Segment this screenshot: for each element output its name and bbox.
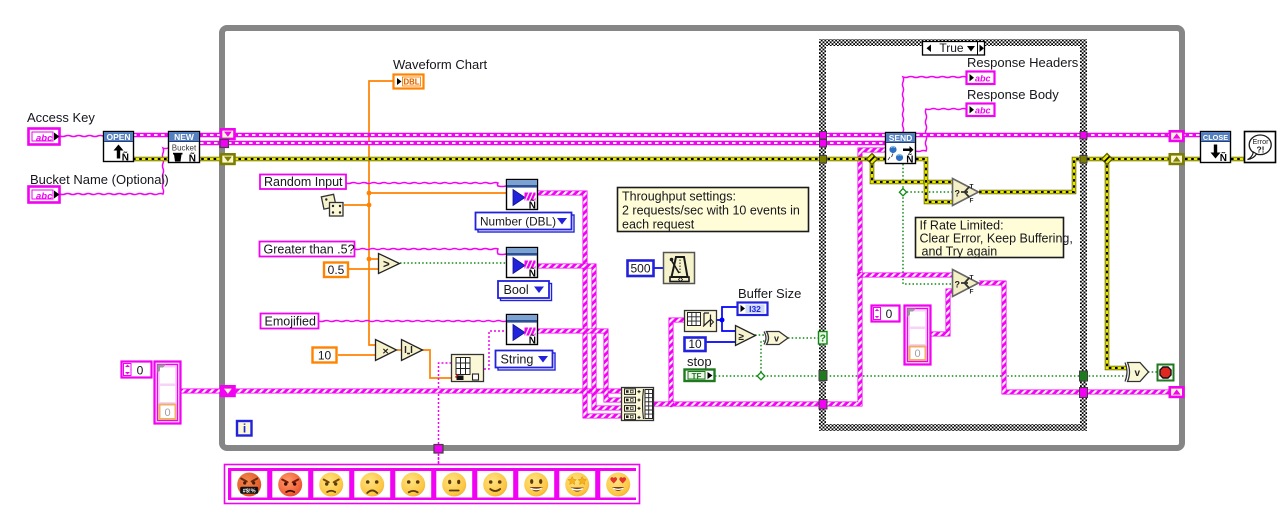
junction: green diamond on stop wire	[757, 372, 765, 380]
tunnel: case right pink square wire1	[1080, 132, 1087, 140]
svg-text:abc: abc	[36, 133, 53, 144]
svg-text:abc: abc	[975, 74, 991, 84]
svg-text:Response Body: Response Body	[967, 87, 1059, 102]
emoji cell 6 (neutral face)	[436, 471, 472, 498]
svg-text:Bool: Bool	[504, 283, 529, 297]
emoji cell 5 (slightly frowning face)	[395, 471, 431, 498]
wire: orange from dice	[344, 204, 369, 206]
emoji array constant: outer frame	[225, 465, 640, 504]
array constant (empty buffer, inside case): index box	[872, 306, 900, 322]
wire: candy build array output to case tunnel	[654, 402, 819, 407]
wire: blue 10 to comparison	[705, 341, 735, 343]
svg-text:Ñ: Ñ	[906, 153, 913, 166]
label box Emojified	[261, 314, 319, 329]
wire: candy branch up to array size node	[671, 320, 684, 404]
junction: orange dots	[367, 191, 372, 196]
svg-text:2 requests/sec with 10 events: 2 requests/sec with 10 events in	[622, 204, 800, 218]
svg-text:10: 10	[688, 337, 702, 351]
node OR gate (buffer full or stop)	[764, 332, 788, 345]
svg-text:Random Input: Random Input	[264, 175, 343, 189]
svg-text:NEW: NEW	[174, 132, 195, 142]
wire: orange from 10 constant to multiply	[338, 354, 375, 356]
svg-text:0: 0	[164, 407, 170, 419]
emoji cell 4 (frowning face)	[354, 471, 390, 498]
shift register: buffer array up (loop right bottom)	[1170, 387, 1184, 397]
junction: blue dot	[720, 318, 725, 323]
svg-text:If Rate Limited:: If Rate Limited:	[920, 219, 1004, 233]
label box Random Input	[260, 175, 346, 190]
wire: string wavy Random Input to node	[346, 182, 506, 186]
node select2 (keep or reset buffer)	[953, 270, 979, 297]
tunnel: case left olive square	[820, 156, 827, 164]
node round to nearest	[402, 340, 423, 361]
svg-text:Ñ: Ñ	[529, 199, 536, 212]
label box Greater than .5?	[260, 242, 355, 257]
tunnel: case right green square (stop)	[1080, 371, 1088, 381]
string indicator Response Body	[967, 104, 995, 117]
node select1 (clear error if rate limited)	[953, 179, 979, 206]
dropdown Bool	[498, 281, 552, 301]
emoji cell 1 (cursing face)	[231, 471, 267, 498]
svg-text:×: ×	[383, 346, 389, 358]
emoji cell 8 (grinning face)	[518, 471, 554, 498]
svg-text:String: String	[501, 353, 534, 367]
shift register: olive down (loop left)	[221, 154, 235, 164]
svg-text:Emojified: Emojified	[265, 315, 316, 329]
wire: green boolean stop across case to right OR gate	[715, 375, 1127, 377]
svg-text:Ñ: Ñ	[529, 267, 536, 280]
wire: orange DBL vertical from Waveform Chart down to multiply	[369, 81, 393, 345]
while loop border	[222, 28, 1182, 448]
wire: error olive OPEN to NEW to left shift register and across to SEND	[133, 157, 885, 162]
wire: candy Bool node output down to build array	[538, 266, 621, 408]
emoji cell 2 (pouting face)	[272, 471, 308, 498]
dropdown String	[496, 351, 556, 371]
node wait metronome	[664, 253, 695, 284]
wire: string wavy SEND to Response Headers	[902, 76, 966, 132]
svg-text:Clear Error, Keep Buffering,: Clear Error, Keep Buffering,	[920, 232, 1073, 246]
node index array	[452, 355, 484, 382]
emoji cell 10 (heart eyes face)	[600, 471, 636, 498]
svg-text:F: F	[970, 289, 974, 296]
node multiply	[376, 340, 397, 361]
svg-text:?: ?	[955, 280, 961, 290]
shift register: olive up (loop right)	[1170, 154, 1184, 164]
wire: blue array size to Buffer Size / comparison	[717, 307, 737, 331]
icon dice (random number)	[321, 194, 343, 216]
constant 500 (blue)	[628, 261, 654, 277]
string control Access Key	[29, 129, 60, 145]
wire: string wavy Greater than .5? label to node	[355, 248, 506, 254]
svg-text:Greater than .5?: Greater than .5?	[264, 243, 355, 257]
comment box If Rate Limited	[916, 218, 1073, 259]
svg-text:abc: abc	[36, 191, 53, 202]
wire: error olive right SR to CLOSE to error dialog	[1185, 157, 1244, 162]
node SEND	[886, 133, 916, 166]
svg-text:True: True	[939, 41, 964, 55]
boolean stop LED	[1158, 365, 1174, 381]
tunnel: case right olive square	[1080, 156, 1087, 164]
svg-text:0: 0	[886, 307, 893, 321]
svg-text:DBL: DBL	[403, 78, 419, 87]
tunnel: case left green square (stop)	[819, 371, 827, 381]
svg-text:Ñ: Ñ	[122, 151, 129, 164]
svg-text:500: 500	[630, 262, 650, 276]
wire: string dotted index array output to String node	[484, 331, 506, 369]
tunnel: pink square on loop bottom border (emoji array)	[434, 445, 443, 454]
svg-text:Response Headers: Response Headers	[967, 55, 1079, 70]
svg-text:abc: abc	[975, 106, 991, 116]
wire: candy select2 output to case right tunnel	[979, 283, 1080, 392]
node array size	[685, 311, 717, 332]
svg-text:#$!%: #$!%	[243, 489, 256, 495]
wire: blue 500 to metronome	[654, 267, 663, 269]
svg-text:?: ?	[955, 189, 961, 199]
node build array	[622, 388, 654, 421]
wire: error olive branch down to select1 t input	[872, 159, 952, 182]
svg-text:v: v	[1135, 368, 1141, 379]
wire: candy buffer array control to select2 f input	[931, 291, 953, 334]
svg-text:Waveform Chart: Waveform Chart	[393, 57, 488, 72]
constant 10 (orange)	[313, 348, 337, 363]
svg-text:10: 10	[318, 349, 332, 363]
wire: string-array candy from left shift register to build array	[180, 389, 621, 394]
wire: orange from 0.5 constant	[349, 268, 378, 270]
wire: green boolean greater-than to Bool node	[400, 262, 506, 264]
svg-text:?!: ?!	[1256, 145, 1264, 155]
wire: error olive case tunnel to shift register and down to OR2	[1087, 159, 1169, 368]
svg-text:Ñ: Ñ	[189, 152, 196, 165]
wire: candy case tunnel to right shift register	[1087, 390, 1169, 395]
wire: error olive select1 output to case right tunnel	[979, 159, 1080, 192]
terminal DBL waveform chart	[394, 75, 424, 89]
svg-text:I32: I32	[749, 304, 761, 314]
svg-text:stop: stop	[687, 354, 712, 369]
wire: green boolean branch to select1 s input	[903, 191, 952, 193]
wire: green boolean SEND rate-limited output down	[903, 164, 953, 284]
wire: green boolean OR to case selector	[788, 337, 819, 339]
svg-text:OPEN: OPEN	[106, 132, 130, 142]
wire: string wavy Access Key to OPEN	[60, 135, 103, 136]
emoji cell 9 (star-struck face)	[559, 471, 595, 498]
wire: orange multiply to round	[397, 349, 401, 351]
wire: pink dashed connection wire 2 (second)	[200, 141, 885, 146]
svg-text:Buffer Size: Buffer Size	[738, 286, 801, 301]
svg-text:Number (DBL): Number (DBL)	[480, 214, 556, 228]
tunnel: case left pink square wire1	[820, 132, 827, 140]
constant 10 (blue)	[685, 337, 706, 351]
wire: string dotted through bottom border	[438, 453, 440, 464]
wire: candy String node output down to build array	[538, 331, 621, 400]
comment box Throughput settings	[618, 188, 809, 232]
wire: orange branch to greater-than top input	[369, 258, 378, 260]
node greater-or-equal	[736, 326, 756, 346]
node simple error handler	[1245, 132, 1276, 163]
array control (initial buffer, outside loop left): index box	[122, 362, 152, 378]
junction: green diamond on rate-limited wire	[899, 189, 906, 196]
To-Events node (Number DBL)	[507, 180, 538, 212]
junction: candy slash junctions	[668, 401, 674, 407]
wire: green boolean array-size>=10 to OR	[755, 334, 766, 336]
node OPEN	[104, 132, 134, 164]
svg-text:v: v	[774, 334, 779, 344]
svg-text:Bucket Name (Optional): Bucket Name (Optional)	[30, 172, 169, 187]
wire: candy branch to select2 t input	[860, 273, 953, 278]
svg-text:CLOSE: CLOSE	[1203, 133, 1228, 142]
svg-text:Ñ: Ñ	[1220, 151, 1227, 164]
svg-text:0: 0	[137, 364, 144, 378]
svg-text:?: ?	[820, 334, 826, 345]
svg-text:TF: TF	[692, 372, 702, 381]
tunnel: case left pink square wire2	[820, 140, 827, 148]
svg-text:0: 0	[914, 348, 920, 360]
wire: pink dashed connection wire 1 (top) across diagram	[133, 133, 1200, 138]
string indicator Response Headers	[967, 72, 995, 85]
constant 0.5	[324, 263, 348, 278]
wire: string wavy Bucket Name to NEW bucket	[60, 148, 168, 195]
svg-text:T: T	[970, 275, 974, 282]
svg-text:Bucket: Bucket	[172, 144, 197, 153]
svg-text:0.5: 0.5	[328, 263, 345, 277]
array constant (empty buffer): array body	[905, 306, 931, 365]
wire: green boolean OR2 to stop LED	[1148, 371, 1157, 373]
svg-text:F: F	[970, 198, 974, 205]
wire: orange branch to To-Events DBL node	[369, 192, 506, 194]
tunnel: case right pink square (buffer)	[1080, 388, 1088, 398]
emoji cell 7 (slightly smiling face)	[477, 471, 513, 498]
node greater-than	[379, 254, 400, 274]
tunnel: case left pink square (buffer)	[819, 400, 827, 410]
To-Events node (Bool)	[507, 248, 538, 280]
terminal I32 Buffer Size	[738, 303, 768, 316]
array control (initial buffer): array body	[155, 362, 181, 424]
shift register: pink up (loop right top)	[1170, 131, 1184, 141]
svg-text:i: i	[243, 422, 246, 436]
tunnel: pink square (loop left, wire 2)	[220, 140, 229, 148]
wire: green boolean branch up to OR bottom input	[761, 341, 766, 376]
shift register: buffer array down (loop left bottom)	[221, 386, 235, 396]
svg-text:Access Key: Access Key	[27, 110, 95, 125]
svg-text:Throughput settings:: Throughput settings:	[622, 190, 736, 204]
wire: orange round output to index array index input	[422, 350, 451, 378]
wire: error olive SEND output to select1 f input	[916, 159, 952, 202]
svg-text:>: >	[383, 259, 390, 271]
boolean control stop TF	[685, 370, 715, 382]
tunnel: case selector ? terminal	[819, 332, 828, 345]
case structure border (hatched)	[823, 43, 1084, 428]
svg-text:and Try again: and Try again	[922, 245, 998, 259]
svg-text:SEND: SEND	[889, 133, 913, 143]
node CLOSE	[1201, 132, 1231, 165]
svg-text:T: T	[970, 184, 974, 191]
node NEW Bucket	[169, 132, 200, 165]
svg-text:each request: each request	[622, 218, 695, 232]
emoji cell 3 (angry face)	[313, 471, 349, 498]
wire: string wavy Emojified label to node	[319, 320, 506, 321]
svg-text:Ñ: Ñ	[529, 334, 536, 347]
iteration terminal i	[237, 421, 252, 436]
svg-text:≥: ≥	[739, 332, 745, 343]
shift register: pink down (loop left top)	[221, 129, 235, 139]
wire: string dotted emoji array up to index array	[439, 363, 452, 464]
case selector label True	[923, 41, 985, 55]
dropdown Number (DBL)	[476, 213, 575, 233]
wire: candy inside case: up the left side into SEND and select2	[826, 150, 885, 404]
To-Events node (String)	[507, 315, 538, 347]
wire: string wavy SEND to Response Body	[916, 108, 966, 151]
wire: candy DBL node output down to build array	[538, 193, 621, 416]
junction: olive diamond right of case	[1102, 154, 1113, 165]
node OR gate 2 (stop or error)	[1125, 363, 1149, 382]
junction: olive diamond before SEND	[867, 154, 878, 165]
string control Bucket Name	[29, 187, 60, 203]
